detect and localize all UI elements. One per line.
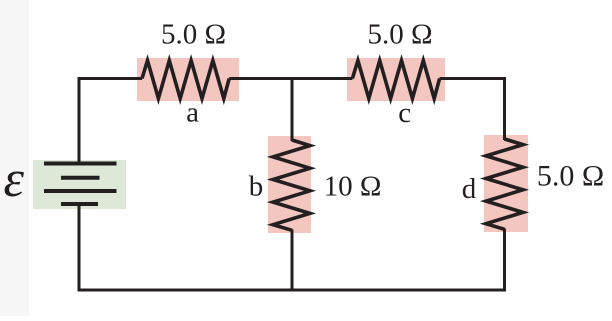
wire top-right segment (resistor c to right corner, down to d)	[440, 79, 505, 141]
wire middle branch bottom (resistor b to bottom wire)	[291, 230, 294, 292]
wire middle branch top (junction to resistor b)	[291, 77, 294, 141]
battery plate long	[44, 189, 117, 193]
svg-text:5.0 Ω: 5.0 Ω	[367, 19, 432, 51]
svg-text:5.0 Ω: 5.0 Ω	[161, 19, 226, 51]
wire top-middle segment (resistor a to resistor c, with junction to b)	[229, 77, 352, 80]
resistor c highlight (pink)	[347, 58, 445, 101]
battery plate short bottom	[61, 202, 98, 206]
battery highlight (green)	[33, 160, 126, 209]
resistor a highlight (pink)	[137, 58, 239, 101]
svg-text:ε: ε	[4, 151, 25, 208]
svg-text:d: d	[462, 173, 477, 205]
svg-text:a: a	[186, 97, 199, 129]
wire bottom rail	[79, 204, 505, 290]
svg-text:b: b	[249, 170, 264, 202]
svg-text:c: c	[398, 97, 411, 129]
wire top-left segment (node to resistor a)	[79, 79, 142, 164]
resistor R_a zigzag	[142, 61, 229, 99]
resistor R_c zigzag	[352, 61, 439, 99]
resistor d highlight (pink)	[484, 135, 528, 232]
wire right branch bottom (resistor d to bottom corner)	[503, 229, 506, 291]
resistor b highlight (pink)	[268, 136, 311, 233]
battery plate long top	[44, 162, 117, 166]
resistor R_b zigzag	[273, 140, 310, 230]
resistor R_d zigzag	[486, 139, 523, 229]
svg-text:5.0 Ω: 5.0 Ω	[537, 160, 604, 193]
svg-text:10 Ω: 10 Ω	[324, 170, 382, 202]
battery plate short	[61, 176, 100, 180]
